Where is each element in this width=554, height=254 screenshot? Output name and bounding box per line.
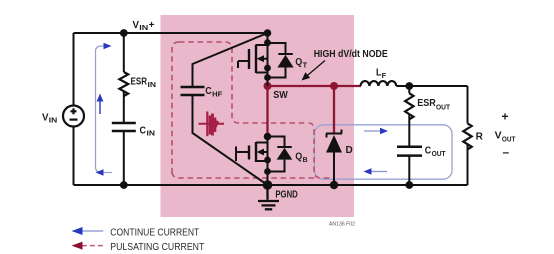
- arrowhead right, input loop top: [104, 43, 112, 50]
- svg-text:Q: Q: [295, 57, 302, 68]
- legend continuous current: [80, 230, 103, 232]
- wire diode D to bottom rail: [333, 153, 335, 186]
- legend pulsating current: [82, 245, 104, 247]
- node CIN bottom: [120, 181, 128, 189]
- resistor ESRIN: [119, 72, 128, 96]
- arrowhead left, input loop bottom: [96, 169, 104, 176]
- svg-text:SW: SW: [273, 90, 288, 101]
- wire ESROUT branch top: [408, 86, 410, 93]
- svg-text:IN: IN: [148, 82, 157, 89]
- SW net maroon wires: [268, 86, 362, 137]
- wire CHF bottom diagonal: [193, 95, 268, 185]
- QB nodes: [264, 133, 272, 141]
- arrow right, output loop top: [364, 130, 381, 132]
- node SW-D junction: [330, 82, 338, 90]
- svg-text:PULSATING CURRENT: PULSATING CURRENT: [110, 242, 204, 253]
- wire left branch lower: [73, 127, 75, 186]
- wire CHF top diagonal: [193, 33, 268, 87]
- svg-text:V: V: [133, 20, 140, 31]
- wire SW down to QB drain: [266, 86, 268, 137]
- wire bottom rail: [74, 184, 468, 186]
- svg-text:OUT: OUT: [432, 151, 447, 158]
- QT body diode: [268, 43, 293, 78]
- svg-text:HIGH dV/dt NODE: HIGH dV/dt NODE: [314, 49, 388, 60]
- svg-text:C: C: [140, 126, 147, 137]
- main black wiring: [74, 33, 468, 185]
- resistor R: [463, 123, 471, 149]
- svg-text:ESR: ESR: [417, 98, 436, 109]
- noise burst symbol: [199, 112, 225, 137]
- svg-text:V: V: [42, 112, 49, 123]
- continuous current loop output side (blue rounded rect): [315, 125, 453, 179]
- arrow left, output loop bottom: [371, 171, 387, 173]
- wire inductor to right corner: [396, 85, 467, 87]
- svg-text:F: F: [382, 73, 387, 80]
- capacitor CIN: [112, 123, 136, 131]
- svg-text:PGND: PGND: [275, 190, 297, 201]
- node VIN+: [120, 29, 128, 37]
- svg-text:R: R: [476, 132, 484, 143]
- svg-text:IN: IN: [147, 131, 156, 138]
- transistor QB (bottom MOSFET): [236, 134, 268, 185]
- svg-text:T: T: [303, 63, 308, 70]
- QT body arrow: [257, 55, 265, 62]
- svg-text:OUT: OUT: [502, 137, 516, 144]
- svg-text:HF: HF: [212, 92, 223, 99]
- svg-text:AN136 F02: AN136 F02: [329, 222, 355, 228]
- QB body arrow: [257, 149, 265, 156]
- svg-text:IN: IN: [139, 25, 148, 32]
- voltage source VIN: [63, 106, 84, 127]
- wire SW rail down to diode D: [333, 86, 335, 134]
- wire top rail: [74, 32, 268, 34]
- svg-text:V: V: [495, 131, 502, 142]
- svg-text:–: –: [503, 145, 510, 159]
- node D bottom: [330, 181, 338, 189]
- ground PGND: [263, 180, 273, 190]
- svg-text:ESR: ESR: [131, 77, 148, 88]
- transistor QT (top MOSFET): [238, 33, 268, 86]
- svg-text:D: D: [346, 145, 353, 156]
- wire left branch upper: [73, 33, 75, 106]
- capacitor COUT: [397, 147, 422, 156]
- pointer arrow to SW node: [305, 61, 325, 78]
- svg-text:Q: Q: [295, 152, 302, 163]
- pink highlight region: [161, 15, 355, 217]
- diode D (schottky): [326, 130, 342, 138]
- svg-text:CONTINUE CURRENT: CONTINUE CURRENT: [110, 228, 199, 239]
- node SW: [264, 82, 272, 90]
- node LF-ESROUT: [405, 82, 413, 90]
- svg-text:C: C: [425, 146, 432, 157]
- QT nodes: [264, 29, 272, 37]
- wire CIN to bottom rail: [123, 131, 125, 185]
- svg-text:OUT: OUT: [436, 105, 451, 112]
- svg-text:IN: IN: [49, 118, 58, 125]
- svg-text:+: +: [149, 20, 155, 31]
- wire SW node to inductor: [268, 85, 362, 87]
- wire ESRIN branch top: [123, 33, 125, 72]
- resistor ESROUT: [405, 93, 413, 119]
- wire ESRIN to CIN: [123, 91, 125, 123]
- svg-text:C: C: [205, 86, 212, 97]
- up arrow on input loop: [99, 100, 101, 114]
- pulsating current dashed hot loop: [172, 42, 334, 178]
- wire ESROUT to COUT: [408, 115, 410, 147]
- wire COUT to bottom rail: [408, 156, 410, 185]
- node COUT bottom: [405, 181, 413, 189]
- svg-text:+: +: [502, 110, 509, 124]
- QB body diode: [268, 137, 292, 172]
- inductor LF: [361, 81, 397, 86]
- wire right branch upper: [467, 86, 469, 123]
- wire right branch lower: [467, 145, 469, 185]
- continuous current loop input side (blue): [96, 46, 113, 173]
- capacitor CHF: [181, 87, 205, 95]
- svg-text:B: B: [303, 157, 308, 164]
